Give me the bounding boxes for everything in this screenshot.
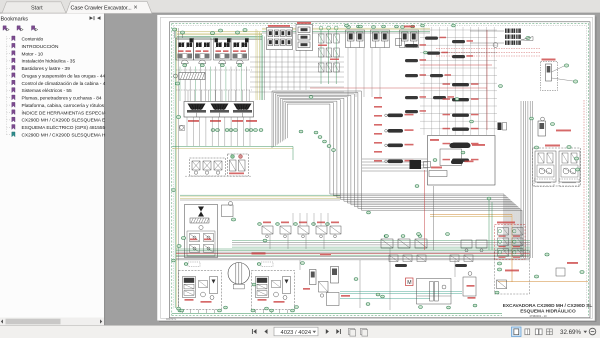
red vertical labels column xyxy=(374,97,382,99)
top horizontal wire bundle xyxy=(177,31,262,33)
accumulator assembly xyxy=(541,62,558,91)
svg-text:4023 / 4024: 4023 / 4024 xyxy=(281,330,312,336)
top right mesh verticals xyxy=(423,27,425,135)
svg-text:32.69%: 32.69% xyxy=(560,329,581,336)
bookmark item 1 xyxy=(7,38,12,40)
tab bar background xyxy=(0,0,600,14)
svg-text:Bastidores y lastre - 39: Bastidores y lastre - 39 xyxy=(22,66,71,72)
red dashed wires xyxy=(436,48,540,50)
view mode icons xyxy=(512,327,522,337)
bookmark item 13 xyxy=(7,126,12,128)
pump assembly right xyxy=(252,271,295,310)
misc vertical wires top mid xyxy=(269,50,271,90)
svg-text:Contenido: Contenido xyxy=(22,37,44,43)
lower-left valve bank B xyxy=(228,154,249,176)
bookmark item 8 xyxy=(7,89,12,91)
tank top valve group 2 xyxy=(450,255,459,262)
svg-text:Sistemas eléctricos - 55: Sistemas eléctricos - 55 xyxy=(22,88,73,94)
wires from banks down xyxy=(179,67,181,102)
left vertical border bundle xyxy=(174,28,176,308)
nav next-page xyxy=(326,329,329,334)
travel pilot cluster xyxy=(381,239,393,248)
scattered ovals xyxy=(318,136,322,139)
orange lines xyxy=(430,214,512,216)
bookmark tree vertical line xyxy=(6,36,8,134)
valves 460-490 xyxy=(461,240,472,248)
bookmarks panel background xyxy=(0,14,104,326)
bookmark item 5 xyxy=(7,67,12,69)
red bus line xyxy=(176,253,530,255)
component right of filters xyxy=(463,277,476,296)
cartridge 2 xyxy=(331,267,339,284)
svg-text:Bookmarks: Bookmarks xyxy=(1,16,29,22)
filter assembly xyxy=(417,279,452,305)
bookmark item 2 xyxy=(7,45,12,47)
small valve right of regulator xyxy=(222,205,234,217)
status bar xyxy=(0,326,600,338)
top mid valve pairs xyxy=(346,30,365,48)
page number box xyxy=(274,327,318,336)
bookmark item 14 xyxy=(7,134,12,136)
red dashed vertical right edge xyxy=(583,100,585,250)
svg-text:Motor - 10: Motor - 10 xyxy=(22,51,44,57)
green bottom border lines xyxy=(172,312,502,314)
svg-text:INTRODUCCIÓN: INTRODUCCIÓN xyxy=(22,43,60,50)
central nested harness loop xyxy=(272,91,522,252)
panel scrollbar xyxy=(0,318,104,326)
svg-text:Case Crawler Excavator...: Case Crawler Excavator... xyxy=(71,5,133,11)
right vertical bundle to swing motors xyxy=(520,101,522,258)
extra bottom right bits xyxy=(534,275,538,278)
bookmark item 3 xyxy=(7,52,12,54)
teal lines bottom xyxy=(340,291,462,293)
valve bank modules top-left xyxy=(176,38,194,60)
green dashed boundary left xyxy=(171,24,173,316)
bookmark item 6 xyxy=(7,75,12,77)
bookmark item 9 xyxy=(7,97,12,99)
ovals above banks xyxy=(172,28,176,31)
outer light frame xyxy=(161,17,593,318)
accumulator above swing xyxy=(538,121,546,136)
svg-text:EXCAVADORA CX290D MH / CX290D: EXCAVADORA CX290D MH / CX290D SL xyxy=(503,303,593,309)
svg-text:M: M xyxy=(407,280,411,286)
inactive tab Start xyxy=(2,2,66,13)
labels above pumps xyxy=(188,262,200,267)
red labels under fan row xyxy=(188,120,199,122)
wires bottom area xyxy=(299,260,301,270)
white box mid xyxy=(440,149,462,166)
swing motor group xyxy=(533,148,581,186)
inner grey dashed frame xyxy=(174,25,587,27)
active tab Case Crawler Excavator xyxy=(66,1,152,13)
nav prev-page xyxy=(264,329,267,334)
green dashed boundary top xyxy=(172,23,589,25)
svg-text:ESQUEMA ELÉCTRICO (GPS) 481555: ESQUEMA ELÉCTRICO (GPS) 48155506 xyxy=(22,124,111,131)
component lower xyxy=(327,293,340,306)
main control valve assembly xyxy=(184,102,254,118)
wires under fan row xyxy=(186,117,188,146)
left loop bundle horizontal xyxy=(180,194,340,196)
horizontals between pilot and mesh xyxy=(250,56,344,58)
green ovals row under fans xyxy=(211,129,215,132)
pilot cluster 1 xyxy=(267,28,293,50)
pilot cluster 2 xyxy=(296,25,313,51)
svg-text:92070TL: 92070TL xyxy=(166,317,177,321)
verticals corner to valve row xyxy=(292,213,294,226)
svg-text:Orugas y suspensión de las oru: Orugas y suspensión de las orugas - 44 xyxy=(22,73,106,79)
solenoid valve bank xyxy=(495,225,526,260)
svg-text:ESQUEMA HIDRÁULICO: ESQUEMA HIDRÁULICO xyxy=(520,308,576,315)
top bundle corner down xyxy=(255,29,257,100)
next view icon xyxy=(361,328,367,334)
svg-text:47360001 - 10: 47360001 - 10 xyxy=(529,314,547,318)
bookmark toolbar icons xyxy=(3,26,6,31)
svg-text:Instalación hidráulica - 35: Instalación hidráulica - 35 xyxy=(22,59,76,65)
pump assembly left xyxy=(179,271,222,310)
tank top valve group 1 xyxy=(389,255,398,262)
document pane background xyxy=(105,14,600,326)
vertical pilot cluster xyxy=(319,26,323,30)
cooler dashed box xyxy=(495,251,530,295)
bottom bus bundle xyxy=(176,248,530,250)
drawing dark frame xyxy=(170,22,591,318)
spool stack mid-left xyxy=(388,114,404,118)
hatched manifold xyxy=(179,73,205,80)
bookmark item 10 xyxy=(7,104,12,106)
panel splitter xyxy=(104,14,105,326)
green dashed boundary right xyxy=(588,24,590,316)
connector blocks xyxy=(505,29,510,33)
bookmark item 7 xyxy=(7,82,12,84)
motor M box xyxy=(406,278,414,286)
svg-text:×: × xyxy=(134,5,138,12)
svg-text:Plumas, penetradores y cuchara: Plumas, penetradores y cucharas - 84 xyxy=(22,96,102,102)
swing bottom dashed boxes xyxy=(534,179,554,187)
verticals from mid valve row down xyxy=(269,234,271,249)
pump regulator cluster xyxy=(185,205,218,258)
bus extra lines upper xyxy=(232,240,530,242)
valve between xyxy=(319,282,329,293)
bookmark item 4 xyxy=(7,60,12,62)
box-to-bundle horizontals xyxy=(362,158,427,160)
svg-text:Plataforma, cabina, carrocería: Plataforma, cabina, carrocería y rótulos xyxy=(22,103,105,109)
green wires right mid xyxy=(488,200,490,250)
svg-text:ÍNDICE DE HERRAMIENTAS ESPECIA: ÍNDICE DE HERRAMIENTAS ESPECIALES xyxy=(22,109,116,116)
page shadow xyxy=(159,17,597,323)
small squares xyxy=(498,123,502,131)
prev view icon xyxy=(349,328,355,334)
header icons xyxy=(90,16,94,20)
bookmark item 11 xyxy=(7,112,12,114)
mid valve row xyxy=(263,222,271,224)
nav first-page xyxy=(253,329,256,334)
top right wire mesh horizontals xyxy=(420,29,497,31)
bank top connector squares xyxy=(190,39,193,43)
svg-text:Control de climatización de la: Control de climatización de la cabina - … xyxy=(22,81,109,87)
svg-text:Start: Start xyxy=(31,6,43,12)
lower-left valve bank A xyxy=(190,158,226,176)
pump drive circle xyxy=(228,263,250,285)
red wire vertical mid xyxy=(424,170,426,250)
page xyxy=(157,15,595,321)
bookmark item 12 xyxy=(7,119,12,121)
spool stack mid-right xyxy=(452,83,469,86)
black block xyxy=(410,160,422,169)
extra spools in mesh xyxy=(405,44,418,47)
cartridge 1 xyxy=(310,270,317,285)
control box mid-right xyxy=(428,136,496,186)
nav last-page xyxy=(336,329,339,334)
